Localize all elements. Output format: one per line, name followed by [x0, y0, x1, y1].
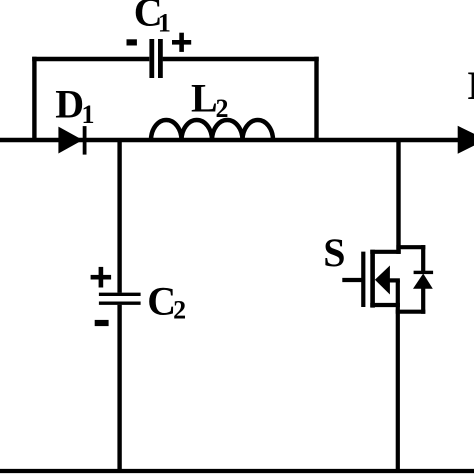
transistor S (MOSFET) gate lead — [342, 278, 363, 282]
wire: top loop left vertical — [32, 57, 36, 142]
wire: source horizontal — [389, 278, 400, 282]
transistor S channel bar — [370, 250, 375, 308]
svg-text:2: 2 — [216, 94, 229, 123]
arrowhead: output current direction — [458, 126, 474, 154]
diode D1 — [58, 127, 82, 154]
label plus (C2 top polarity) — [91, 275, 112, 280]
svg-text:1: 1 — [82, 100, 95, 129]
svg-text:1: 1 — [158, 8, 171, 37]
wire: top rail left segment (to C1 left plate) — [32, 57, 149, 61]
wire: main horizontal rail (input to output) — [0, 138, 458, 143]
wire: bottom rail — [0, 469, 474, 473]
label minus (C2 bottom polarity) — [95, 320, 109, 326]
wire: switch drain vertical (from main rail) — [396, 140, 400, 254]
wire: switch top-right rail (to body diode) — [396, 245, 425, 249]
svg-text:L: L — [191, 75, 218, 120]
wire: body diode branch lower — [421, 288, 425, 314]
svg-text:C: C — [147, 279, 176, 324]
wire: switch bottom-right rail — [396, 310, 426, 314]
wire: switch top-left rail — [370, 250, 400, 254]
wire: C2 branch lower — [117, 305, 121, 471]
capacitor C2 — [99, 293, 141, 296]
svg-text:I: I — [467, 63, 474, 108]
wire: C2 branch upper — [117, 138, 121, 293]
transistor S gate bar — [361, 252, 365, 307]
label plus (C1 right polarity) — [172, 40, 191, 45]
diode body (cathode bar) — [414, 271, 434, 274]
svg-text:S: S — [323, 230, 345, 275]
wire: source/exit vertical — [396, 280, 400, 471]
wire: body diode branch upper — [421, 245, 425, 272]
transistor S source arrow — [375, 266, 390, 295]
diode body (triangle) — [413, 274, 433, 289]
wire: top loop right vertical — [314, 57, 318, 142]
wire: switch bottom-left rail — [370, 303, 400, 307]
capacitor C1 — [149, 39, 154, 78]
svg-text:2: 2 — [173, 295, 186, 324]
label minus (C1 left polarity) — [127, 39, 137, 45]
svg-text:D: D — [55, 81, 84, 126]
inductor L2 — [151, 120, 273, 140]
wire: top rail right segment (C1 right plate to corner) — [163, 57, 319, 61]
